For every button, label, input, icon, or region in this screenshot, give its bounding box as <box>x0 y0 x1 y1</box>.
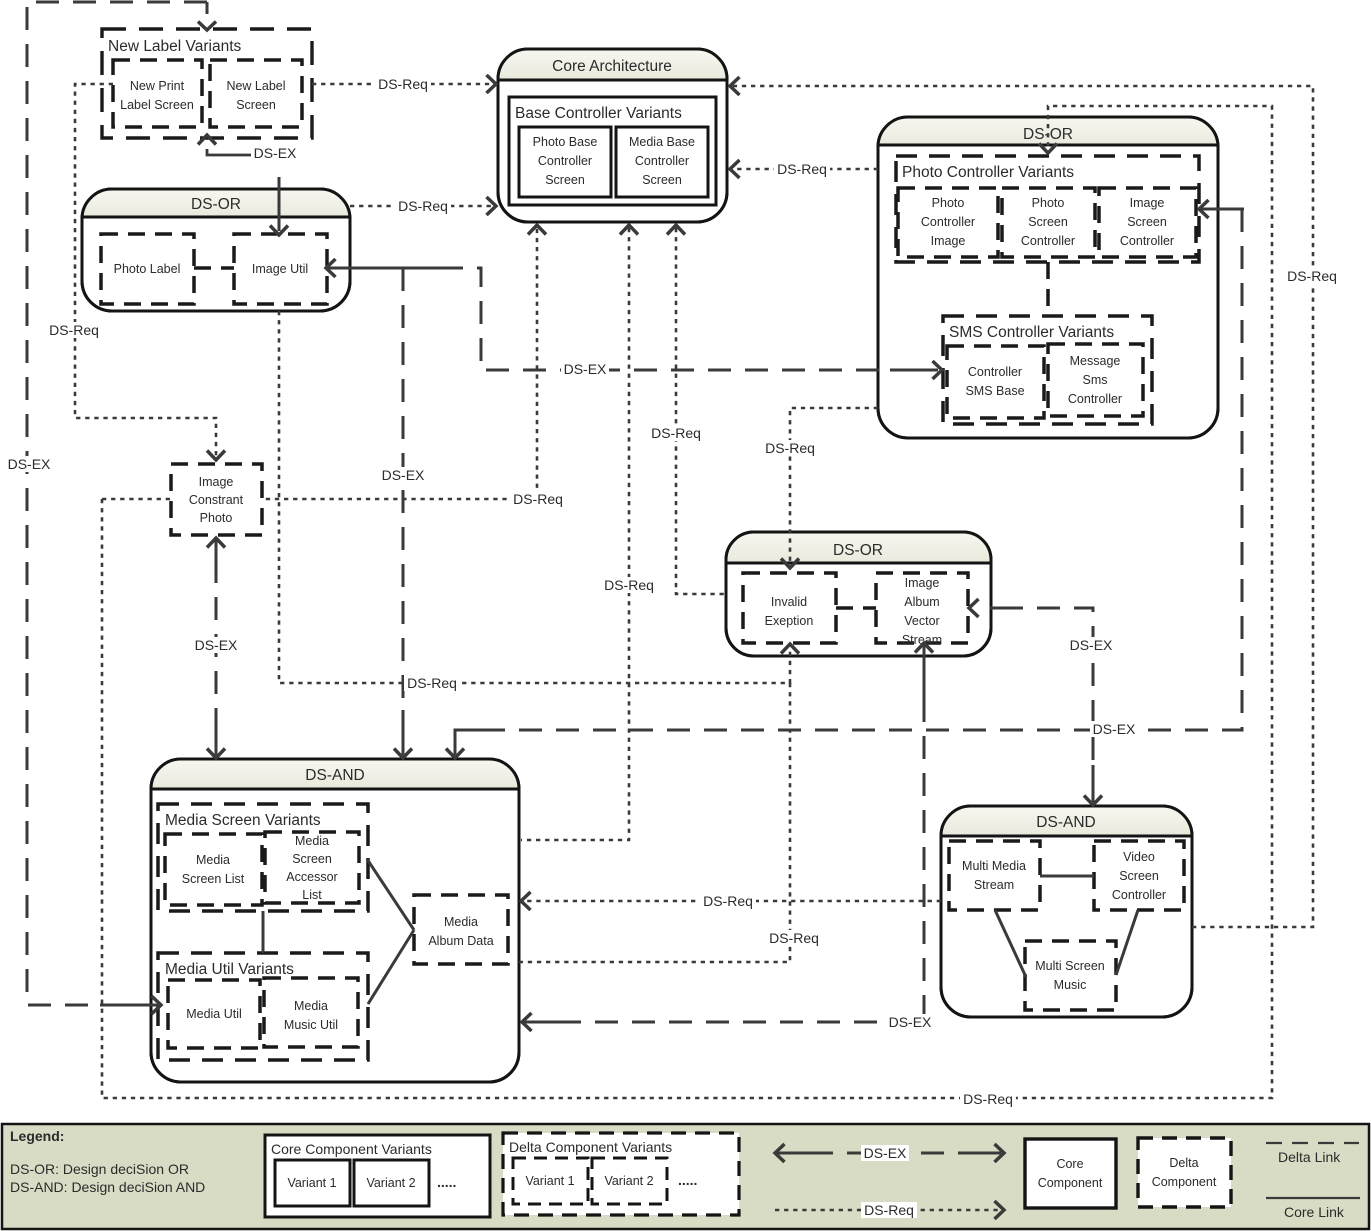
svg-text:Variant 1: Variant 1 <box>525 1174 574 1188</box>
svg-text:Video: Video <box>1123 850 1155 864</box>
svg-text:DS-Req: DS-Req <box>398 198 448 214</box>
svg-text:DS-EX: DS-EX <box>1093 721 1136 737</box>
svg-text:Screen: Screen <box>1119 869 1159 883</box>
svg-text:DS-AND: Design deciSion AND: DS-AND: Design deciSion AND <box>10 1179 205 1195</box>
svg-text:DS-Req: DS-Req <box>703 893 753 909</box>
svg-text:Music: Music <box>1054 978 1087 992</box>
svg-text:DS-OR: Design deciSion OR: DS-OR: Design deciSion OR <box>10 1161 189 1177</box>
svg-text:Screen List: Screen List <box>182 872 245 886</box>
svg-text:Image: Image <box>199 475 234 489</box>
svg-text:Delta Link: Delta Link <box>1278 1149 1341 1165</box>
svg-text:Media: Media <box>196 853 230 867</box>
svg-text:Controller: Controller <box>1068 392 1122 406</box>
svg-text:Constrant: Constrant <box>189 493 244 507</box>
svg-text:DS-OR: DS-OR <box>833 542 883 559</box>
svg-text:List: List <box>302 888 322 902</box>
svg-text:SMS Controller Variants: SMS Controller Variants <box>949 324 1114 341</box>
svg-text:Media Util: Media Util <box>186 1007 242 1021</box>
svg-text:DS-AND: DS-AND <box>1036 814 1095 831</box>
svg-text:Controller: Controller <box>968 365 1022 379</box>
svg-text:Variant 1: Variant 1 <box>287 1176 336 1190</box>
svg-text:Screen: Screen <box>292 852 332 866</box>
svg-text:Photo: Photo <box>1032 196 1065 210</box>
svg-text:Base Controller Variants: Base Controller Variants <box>515 105 682 122</box>
svg-text:Legend:: Legend: <box>10 1128 64 1144</box>
svg-text:Screen: Screen <box>1127 215 1167 229</box>
svg-text:Screen: Screen <box>1028 215 1068 229</box>
svg-text:Message: Message <box>1070 354 1121 368</box>
svg-text:Stream: Stream <box>974 878 1014 892</box>
svg-text:DS-AND: DS-AND <box>305 767 364 784</box>
svg-text:Component: Component <box>1152 1175 1217 1189</box>
svg-text:Controller: Controller <box>1112 888 1166 902</box>
svg-text:Controller: Controller <box>921 215 975 229</box>
svg-text:DS-Req: DS-Req <box>777 161 827 177</box>
svg-text:Screen: Screen <box>545 173 585 187</box>
svg-text:Controller: Controller <box>538 154 592 168</box>
svg-text:Image: Image <box>905 576 940 590</box>
svg-text:DS-EX: DS-EX <box>1070 637 1113 653</box>
svg-text:Photo Controller Variants: Photo Controller Variants <box>902 164 1074 181</box>
svg-text:Image: Image <box>1130 196 1165 210</box>
svg-text:Accessor: Accessor <box>286 870 337 884</box>
svg-text:SMS Base: SMS Base <box>965 384 1024 398</box>
svg-text:Media Base: Media Base <box>629 135 695 149</box>
svg-text:Media Screen Variants: Media Screen Variants <box>165 812 321 829</box>
svg-text:DS-EX: DS-EX <box>889 1014 932 1030</box>
svg-text:Core Component Variants: Core Component Variants <box>271 1141 432 1157</box>
svg-text:Core Link: Core Link <box>1284 1204 1345 1220</box>
svg-text:DS-EX: DS-EX <box>195 637 238 653</box>
svg-text:DS-Req: DS-Req <box>765 440 815 456</box>
svg-text:Album Data: Album Data <box>428 934 493 948</box>
svg-text:Variant 2: Variant 2 <box>604 1174 653 1188</box>
svg-text:Controller: Controller <box>635 154 689 168</box>
svg-text:New Label Variants: New Label Variants <box>108 38 242 55</box>
svg-text:DS-Req: DS-Req <box>49 322 99 338</box>
svg-text:DS-OR: DS-OR <box>191 196 241 213</box>
svg-text:DS-Req: DS-Req <box>378 76 428 92</box>
svg-text:Delta Component Variants: Delta Component Variants <box>509 1139 672 1155</box>
svg-text:DS-EX: DS-EX <box>8 456 51 472</box>
svg-text:Controller: Controller <box>1021 234 1075 248</box>
svg-text:DS-EX: DS-EX <box>564 361 607 377</box>
svg-text:Variant 2: Variant 2 <box>366 1176 415 1190</box>
svg-text:Sms: Sms <box>1083 373 1108 387</box>
svg-text:DS-EX: DS-EX <box>254 145 297 161</box>
svg-text:Label Screen: Label Screen <box>120 98 194 112</box>
svg-text:Image: Image <box>931 234 966 248</box>
svg-text:Media: Media <box>295 834 329 848</box>
svg-text:Component: Component <box>1038 1176 1103 1190</box>
svg-text:Photo: Photo <box>200 511 233 525</box>
svg-text:Vector: Vector <box>904 614 939 628</box>
svg-text:DS-Req: DS-Req <box>407 675 457 691</box>
svg-text:DS-Req: DS-Req <box>769 930 819 946</box>
svg-text:Media Util Variants: Media Util Variants <box>165 961 294 978</box>
svg-text:New Print: New Print <box>130 79 185 93</box>
svg-text:DS-Req: DS-Req <box>864 1202 914 1218</box>
svg-text:.....: ..... <box>678 1172 697 1188</box>
svg-text:Media: Media <box>444 915 478 929</box>
svg-text:New Label: New Label <box>226 79 285 93</box>
svg-text:DS-Req: DS-Req <box>1287 268 1337 284</box>
svg-text:Screen: Screen <box>642 173 682 187</box>
svg-text:Exeption: Exeption <box>765 614 814 628</box>
svg-text:Album: Album <box>904 595 939 609</box>
svg-text:Screen: Screen <box>236 98 276 112</box>
svg-text:Multi Media: Multi Media <box>962 859 1026 873</box>
svg-text:Media: Media <box>294 999 328 1013</box>
svg-text:Image Util: Image Util <box>252 262 308 276</box>
svg-text:Photo Label: Photo Label <box>114 262 181 276</box>
svg-text:DS-Req: DS-Req <box>513 491 563 507</box>
svg-text:Core Architecture: Core Architecture <box>552 58 672 75</box>
svg-text:.....: ..... <box>437 1174 456 1190</box>
svg-text:Photo: Photo <box>932 196 965 210</box>
svg-text:Multi Screen: Multi Screen <box>1035 959 1105 973</box>
svg-text:Core: Core <box>1056 1157 1083 1171</box>
svg-text:Delta: Delta <box>1169 1156 1198 1170</box>
svg-text:DS-Req: DS-Req <box>651 425 701 441</box>
svg-text:DS-Req: DS-Req <box>604 577 654 593</box>
svg-text:DS-EX: DS-EX <box>382 467 425 483</box>
svg-text:DS-EX: DS-EX <box>864 1145 907 1161</box>
svg-text:Photo Base: Photo Base <box>533 135 598 149</box>
svg-text:Invalid: Invalid <box>771 595 807 609</box>
svg-text:Music Util: Music Util <box>284 1018 338 1032</box>
svg-text:Controller: Controller <box>1120 234 1174 248</box>
svg-text:DS-Req: DS-Req <box>963 1091 1013 1107</box>
